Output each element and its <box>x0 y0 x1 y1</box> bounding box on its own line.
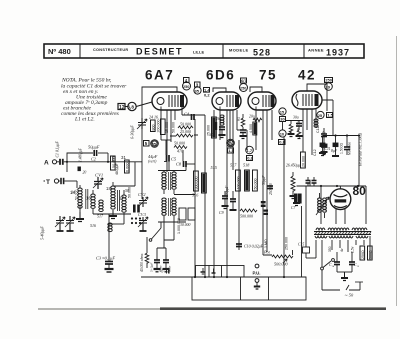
svg-text:30: 30 <box>280 117 285 122</box>
svg-text:14: 14 <box>70 190 75 195</box>
terminals P.U. <box>253 264 261 289</box>
wire bus vertical 3 <box>213 110 215 277</box>
capacitor on detector line (dark) <box>261 201 268 215</box>
svg-text:517: 517 <box>97 214 104 219</box>
svg-text:5-40μμF: 5-40μμF <box>40 226 45 240</box>
svg-text:C6: C6 <box>210 133 215 137</box>
svg-text:517: 517 <box>230 163 237 168</box>
wire bus vertical 5 <box>238 140 240 250</box>
coil choke left of 80 <box>316 193 329 218</box>
capacitor C10 0,02uF <box>236 244 264 250</box>
core lines oscillator transformer <box>118 190 120 211</box>
svg-text:800: 800 <box>152 125 156 131</box>
grid cap wire 6D6 <box>213 88 226 92</box>
svg-text:CV1: CV1 <box>95 173 103 178</box>
capacitor C13 <box>349 252 360 272</box>
wire lamp to tube <box>125 102 152 107</box>
pin label square 0,8 <box>247 156 254 161</box>
svg-text:C12: C12 <box>316 126 320 133</box>
tube 42 <box>292 91 322 109</box>
svg-text:4v: 4v <box>340 248 344 252</box>
tone network right of 42 <box>316 126 328 154</box>
svg-text:500.000: 500.000 <box>274 262 289 267</box>
capacitor C9 with ground <box>219 191 229 215</box>
svg-text:516: 516 <box>90 223 96 228</box>
mains wires <box>322 270 363 290</box>
svg-text:500.000: 500.000 <box>240 214 253 219</box>
svg-text:10: 10 <box>280 131 285 136</box>
terminal A (antenna) <box>44 160 57 167</box>
resistor 50.000c vertical <box>253 170 258 191</box>
svg-text:C4: C4 <box>184 112 190 117</box>
antenna coil 16 <box>86 190 95 214</box>
resistor 100.000b vertical <box>243 163 250 192</box>
pin label circle 250 (75) <box>240 84 248 92</box>
wire oscillator section verticals <box>93 97 142 262</box>
page bottom shadow <box>38 308 162 310</box>
wires 6D6 electrode drops <box>220 107 247 171</box>
wires 6A7 anode to C4 <box>182 115 205 150</box>
terminal T (terre) <box>44 179 59 186</box>
svg-text:75: 75 <box>259 68 277 83</box>
oscillator coil 19 <box>119 190 126 224</box>
svg-text:5+5μF: 5+5μF <box>150 262 154 272</box>
svg-text:C₁₄: C₁₄ <box>329 263 335 267</box>
svg-text:50μμF: 50μμF <box>88 145 100 150</box>
resistor Pm 500.000 (zigzag) <box>240 209 257 219</box>
trimmer capacitor grid <box>137 118 147 129</box>
title block frame <box>44 44 364 58</box>
wires mid connectors <box>147 140 195 248</box>
svg-text:81: 81 <box>237 117 241 121</box>
pin label square 5 <box>144 141 150 147</box>
capacitor C2 50uuF <box>88 145 100 162</box>
svg-text:2,5v: 2,5v <box>351 246 355 253</box>
svg-text:42: 42 <box>298 68 316 83</box>
wire output drop 3 <box>283 276 285 278</box>
pin label square 3 <box>195 82 201 87</box>
pin label circle 45 <box>227 139 235 147</box>
pin label square 4 <box>184 78 190 83</box>
ground mid right <box>293 196 300 206</box>
title block text <box>48 47 350 58</box>
capacitor C1 (series, at terminal) <box>56 141 68 165</box>
svg-text:50.000: 50.000 <box>128 187 132 198</box>
resistor 31 / 6.000 <box>121 155 130 173</box>
wires 75 electrode drops <box>256 107 272 253</box>
svg-text:CONSTRUCTEUR: CONSTRUCTEUR <box>93 48 128 52</box>
grid cap wire 75 <box>250 87 262 92</box>
svg-text:250.000: 250.000 <box>269 183 273 195</box>
svg-text:Nº 480: Nº 480 <box>48 47 71 56</box>
svg-text:6.000: 6.000 <box>126 162 130 172</box>
svg-text:T: T <box>46 179 50 186</box>
ground below oscillator coil <box>109 210 117 219</box>
svg-text:26.450μμ: 26.450μμ <box>286 164 300 168</box>
ground below C3 <box>105 269 114 272</box>
svg-text:C12: C12 <box>313 149 317 156</box>
resistor 50.000a (zigzag, screen) <box>174 141 187 154</box>
wire antenna junction bus <box>67 153 142 173</box>
svg-text:55: 55 <box>152 142 156 146</box>
svg-text:15: 15 <box>280 109 285 114</box>
grid cap wire 42 <box>307 84 327 91</box>
chassis symbol in upper row <box>201 268 216 274</box>
pin label circle 55 <box>151 140 159 148</box>
svg-text:6D6: 6D6 <box>206 68 235 83</box>
resistor 30.000 box pair <box>179 208 195 227</box>
pin label square 250 (42) <box>325 78 333 83</box>
pin label square 30 <box>280 117 286 122</box>
svg-text:50.000: 50.000 <box>180 122 191 127</box>
svg-text:100.000: 100.000 <box>236 177 240 190</box>
transformer tap wires <box>316 236 370 267</box>
pin label square 1,4 <box>204 87 211 97</box>
resistor 250.000 vertical zigzag (diode load) <box>290 172 297 199</box>
ground below switch <box>337 272 352 281</box>
wire HT to rectifier <box>297 180 367 224</box>
pin label circle 250 <box>183 82 191 90</box>
svg-text:1,5: 1,5 <box>228 148 234 153</box>
resistor 200.000 <box>156 119 165 135</box>
tube 6A7 <box>152 92 187 110</box>
capacitor C4 <box>184 112 194 121</box>
svg-text:470: 470 <box>177 149 183 154</box>
capacitor 50uuF (diode coupling) <box>262 175 273 195</box>
svg-text:350: 350 <box>328 246 332 252</box>
svg-text:528: 528 <box>253 48 271 58</box>
IF transformer 1 (primary/secondary 515) <box>158 165 217 194</box>
power transformer secondary row <box>315 236 368 238</box>
junction dots bottom bus <box>194 276 285 278</box>
capacitors above HT line <box>306 177 317 186</box>
svg-text:516: 516 <box>192 193 199 198</box>
svg-text:50.000: 50.000 <box>172 122 176 133</box>
svg-text:(vert): (vert) <box>148 160 157 164</box>
diode load chains under 75 <box>286 116 303 139</box>
svg-text:C2: C2 <box>91 157 96 162</box>
resistor 40.000 ohms (bias, zigzag vertical) <box>140 248 149 272</box>
capacitor 100uuF with ground <box>225 185 237 210</box>
junction dots power <box>320 134 360 187</box>
pin label circle 35 <box>194 87 201 94</box>
filter capacitor 8uF b with labels <box>340 141 352 155</box>
pin label square 1,5b <box>228 148 235 153</box>
svg-text:12: 12 <box>119 105 125 111</box>
resistor 800 <box>151 120 156 132</box>
svg-text:Modulée: Modulée <box>348 142 352 155</box>
resistor 50.000 ohms (zigzag) <box>178 122 193 130</box>
chassis box bottom <box>192 266 306 301</box>
core lines antenna transformer <box>86 189 88 209</box>
svg-text:ANNEE: ANNEE <box>308 48 324 53</box>
wire bottom bus <box>141 276 306 278</box>
resistor 15.000 vertical <box>212 117 217 138</box>
band switch arm <box>149 222 161 241</box>
resistor chain under 6D6 (coil + cap + ground) <box>216 115 226 138</box>
svg-text:40.000 ohms: 40.000 ohms <box>140 253 144 272</box>
fuse box C15 <box>298 186 316 258</box>
svg-text:44μF: 44μF <box>148 154 158 159</box>
svg-text:∼ 50: ∼ 50 <box>344 293 354 298</box>
padder trimmer CV2 <box>138 192 148 207</box>
svg-text:20.000: 20.000 <box>301 156 305 167</box>
tube 80 <box>330 189 351 210</box>
trimmer capacitor second <box>65 216 75 231</box>
svg-text:26: 26 <box>216 117 220 121</box>
resistor 25.000b vertical <box>202 173 207 193</box>
power transformer core <box>314 231 371 234</box>
svg-text:100μμF: 100μμF <box>225 185 229 197</box>
pilot lamp L1 ballast (square 12) <box>118 104 125 111</box>
transformer tap labels <box>328 246 355 253</box>
oscillator coil 18 <box>106 182 115 209</box>
coil 517 (band coil) <box>97 200 104 219</box>
svg-text:-5: -5 <box>160 269 164 274</box>
svg-text:0,8: 0,8 <box>279 140 285 145</box>
rectifier 80 plate wires <box>336 186 345 224</box>
svg-text:1.480μμF: 1.480μμF <box>79 147 83 162</box>
svg-text:C₁₃: C₁₃ <box>354 263 360 267</box>
pin label circle 29 <box>325 83 333 91</box>
svg-text:C9: C9 <box>219 210 224 215</box>
resistor chain 81 (zigzag + cap + ground) <box>237 114 247 139</box>
IF transformer 2 (516) <box>158 193 199 223</box>
resistor 50.000 (antenna shunt) <box>111 156 116 170</box>
svg-text:0,2: 0,2 <box>204 93 210 98</box>
svg-text:A: A <box>44 160 49 167</box>
output transformer (42 plate) <box>314 118 318 127</box>
svg-text:518: 518 <box>243 163 250 168</box>
svg-text:250Ω: 250Ω <box>361 250 365 259</box>
pin label circle 25 <box>317 111 324 118</box>
svg-text:0,8: 0,8 <box>247 156 253 161</box>
resistor 20a zigzag + 4.500 chain under 75 <box>249 115 262 136</box>
capacitor C6 (dark) <box>210 122 217 137</box>
svg-text:1 MΩ: 1 MΩ <box>264 239 268 248</box>
svg-text:Pot: Pot <box>263 250 271 255</box>
svg-text:MODELE: MODELE <box>229 48 249 53</box>
capacitor C14 <box>329 252 340 272</box>
wire bus vertical 1 <box>194 119 196 277</box>
pin label square 6/7 <box>241 78 248 83</box>
tube 75 <box>248 92 276 110</box>
capacitor (junction block) <box>78 167 87 175</box>
switch secteur <box>321 259 335 270</box>
svg-text:P.U.: P.U. <box>253 271 261 276</box>
wire bus vertical 4 <box>226 110 228 277</box>
svg-text:DESMET: DESMET <box>136 47 183 57</box>
capacitor C11 0,1uF <box>319 143 331 156</box>
capacitor C7 (dark) <box>291 194 301 210</box>
resistor 500 ohm vertical <box>368 246 373 260</box>
electrolytic 5+5uF with grounds <box>150 248 172 273</box>
label 58 and resistor 50.000 rotated <box>115 163 132 198</box>
pilot lamp L2 (circle 6,8) <box>125 102 152 111</box>
svg-text:L1 et L2.: L1 et L2. <box>74 117 95 123</box>
svg-text:29: 29 <box>326 84 331 89</box>
svg-text:1,7: 1,7 <box>247 148 253 153</box>
capacitor C5 <box>167 155 177 162</box>
svg-text:500Ω: 500Ω <box>368 250 372 259</box>
wire output secondary drop 2 <box>301 206 303 277</box>
junction y <box>107 161 109 163</box>
svg-text:31: 31 <box>121 155 126 160</box>
svg-text:30a: 30a <box>293 116 299 120</box>
grid cap wire 6A7 <box>142 87 177 97</box>
wire B+ line <box>323 136 360 187</box>
svg-text:200.000: 200.000 <box>156 120 160 133</box>
svg-text:50μμF: 50μμF <box>262 175 266 185</box>
resistor 25.000 (zigzag) <box>170 129 198 137</box>
resistor 100.000 vertical (6D6 grid) <box>230 163 240 192</box>
junction x <box>66 161 68 163</box>
svg-text:6-30μμF: 6-30μμF <box>130 125 135 139</box>
label 34 and winding text <box>71 190 79 201</box>
svg-text:LILLE: LILLE <box>193 50 204 55</box>
svg-text:35: 35 <box>195 88 200 93</box>
capacitor C3 0,1uF <box>96 256 115 270</box>
trimmer capacitor (antenna) <box>55 216 65 231</box>
svg-text:20: 20 <box>83 171 87 175</box>
svg-text:15.000: 15.000 <box>165 122 169 133</box>
pin label circle 15 <box>279 108 286 115</box>
potentiometer Pot 500.000 <box>263 250 293 267</box>
ground below antenna coil <box>76 212 84 222</box>
wire output secondary drop 1 <box>283 137 285 277</box>
antenna coil 14 <box>70 185 82 212</box>
svg-text:250: 250 <box>183 85 189 89</box>
capacitor C8 <box>176 161 186 167</box>
capacitor 44uF vert label <box>148 154 158 164</box>
svg-text:24 16.: 24 16. <box>149 115 159 120</box>
svg-text:6,8: 6,8 <box>128 105 135 110</box>
svg-text:C8: C8 <box>176 162 182 167</box>
svg-text:Ht Parleur exc.1.300Ω: Ht Parleur exc.1.300Ω <box>359 133 363 167</box>
variable capacitor CV1 <box>93 173 103 190</box>
tube 6D6 <box>212 92 241 110</box>
svg-text:250: 250 <box>325 78 332 83</box>
power transformer primary row <box>316 228 367 230</box>
trimmer CV3 <box>138 212 148 231</box>
wire bus vertical 2 <box>204 150 206 277</box>
coil 516b <box>90 223 112 232</box>
svg-text:6/7: 6/7 <box>241 78 247 83</box>
resistor 20.000 (42 grid) <box>301 152 306 168</box>
svg-text:1937: 1937 <box>326 48 350 58</box>
pin label square 0,8b <box>279 140 286 145</box>
svg-text:30.000: 30.000 <box>180 223 191 227</box>
capacitor pair (padder, dark) <box>133 205 140 213</box>
resistor 300.000 vertical <box>194 171 199 191</box>
filter capacitor 8uF a <box>331 143 339 156</box>
pin label circle 1,7 <box>246 146 254 154</box>
resistor 250 ohm vertical <box>360 246 365 260</box>
svg-text:8μF: 8μF <box>331 149 338 153</box>
wires 42 electrode drops <box>283 91 334 155</box>
pin label circle 10 <box>279 130 286 137</box>
svg-text:250.000: 250.000 <box>285 237 289 250</box>
wires 6A7 electrode drops <box>161 107 182 173</box>
svg-text:6A7: 6A7 <box>145 68 174 83</box>
terminal -5 marks left of box <box>160 268 169 274</box>
wave switch contact dots <box>131 217 141 224</box>
pin label square 1,5 <box>327 113 334 118</box>
svg-text:50.000: 50.000 <box>253 179 257 190</box>
resistor texts mid cluster <box>165 122 289 250</box>
svg-text:250: 250 <box>240 86 246 90</box>
capacitor on T lead <box>59 178 77 184</box>
svg-text:480μμF: 480μμF <box>115 163 119 175</box>
svg-text:25: 25 <box>318 113 323 118</box>
svg-text:1.500Ω: 1.500Ω <box>340 143 344 154</box>
page right edge <box>396 36 398 306</box>
wire T to coil <box>76 181 78 188</box>
nota text <box>61 78 127 123</box>
wire IF link <box>174 165 195 195</box>
svg-text:CV.3: CV.3 <box>138 212 146 217</box>
svg-text:25.000: 25.000 <box>207 125 211 136</box>
